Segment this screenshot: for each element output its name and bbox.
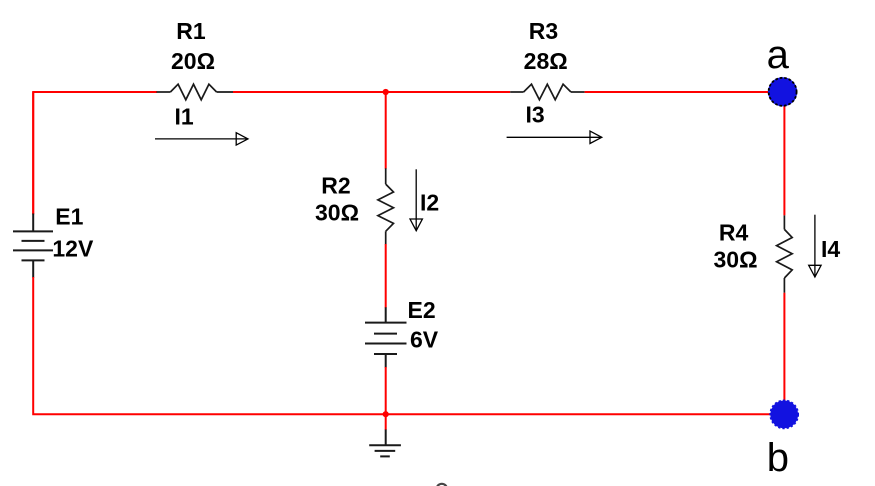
wire: top left segment (corner to R1): [33, 92, 157, 214]
svg-text:28Ω: 28Ω: [524, 48, 568, 74]
node b dot: [770, 401, 798, 429]
resistor R4: [777, 215, 793, 292]
svg-text:I3: I3: [526, 102, 545, 128]
svg-text:12V: 12V: [52, 235, 94, 261]
svg-text:I1: I1: [175, 104, 194, 130]
svg-text:30Ω: 30Ω: [713, 247, 757, 273]
svg-text:R4: R4: [719, 220, 749, 246]
ground: [369, 430, 401, 457]
svg-text:b: b: [767, 436, 789, 480]
junction: bottom node: [383, 411, 389, 417]
wire: left vertical, E1 to bottom corner: [33, 277, 386, 414]
svg-text:a: a: [767, 33, 790, 77]
wire: ground stub (red): [385, 414, 387, 430]
resistor R1: [157, 84, 234, 100]
current arrow I1: [155, 133, 248, 145]
wire: middle vertical, R2 to E2: [385, 244, 387, 308]
svg-text:I2: I2: [420, 189, 439, 215]
current arrow I4: [809, 215, 821, 277]
resistor R2: [378, 168, 394, 244]
wire: top, R1 to top junction: [233, 91, 386, 93]
junction: top node: [383, 89, 389, 95]
current arrow I2: [410, 169, 422, 231]
svg-text:6V: 6V: [410, 327, 439, 353]
resistor R3: [510, 84, 584, 100]
wire: middle vertical, junction to R2: [385, 92, 387, 169]
wire: right, node a to R4: [783, 92, 785, 215]
svg-text:E1: E1: [55, 204, 83, 230]
svg-text:R2: R2: [321, 173, 350, 199]
partial glyph at bottom edge: [437, 484, 447, 486]
svg-text:R3: R3: [529, 18, 558, 44]
wire: middle vertical, E2 to bottom junction: [385, 367, 387, 414]
wire: right, R4 to node b: [783, 293, 785, 415]
current arrow I3: [507, 131, 602, 143]
wire: top, junction to R3: [386, 91, 511, 93]
svg-text:20Ω: 20Ω: [171, 48, 215, 74]
svg-text:E2: E2: [408, 297, 436, 323]
wire: left vertical, top to E1: [32, 92, 34, 215]
svg-text:I4: I4: [821, 236, 840, 262]
node a dot: [768, 77, 797, 106]
svg-text:R1: R1: [176, 18, 206, 44]
svg-text:30Ω: 30Ω: [315, 200, 359, 226]
wire: bottom, junction to node b: [386, 413, 785, 415]
wire: top, R3 to node a: [585, 91, 783, 93]
battery E2: [365, 307, 407, 367]
battery E1: [13, 214, 53, 278]
